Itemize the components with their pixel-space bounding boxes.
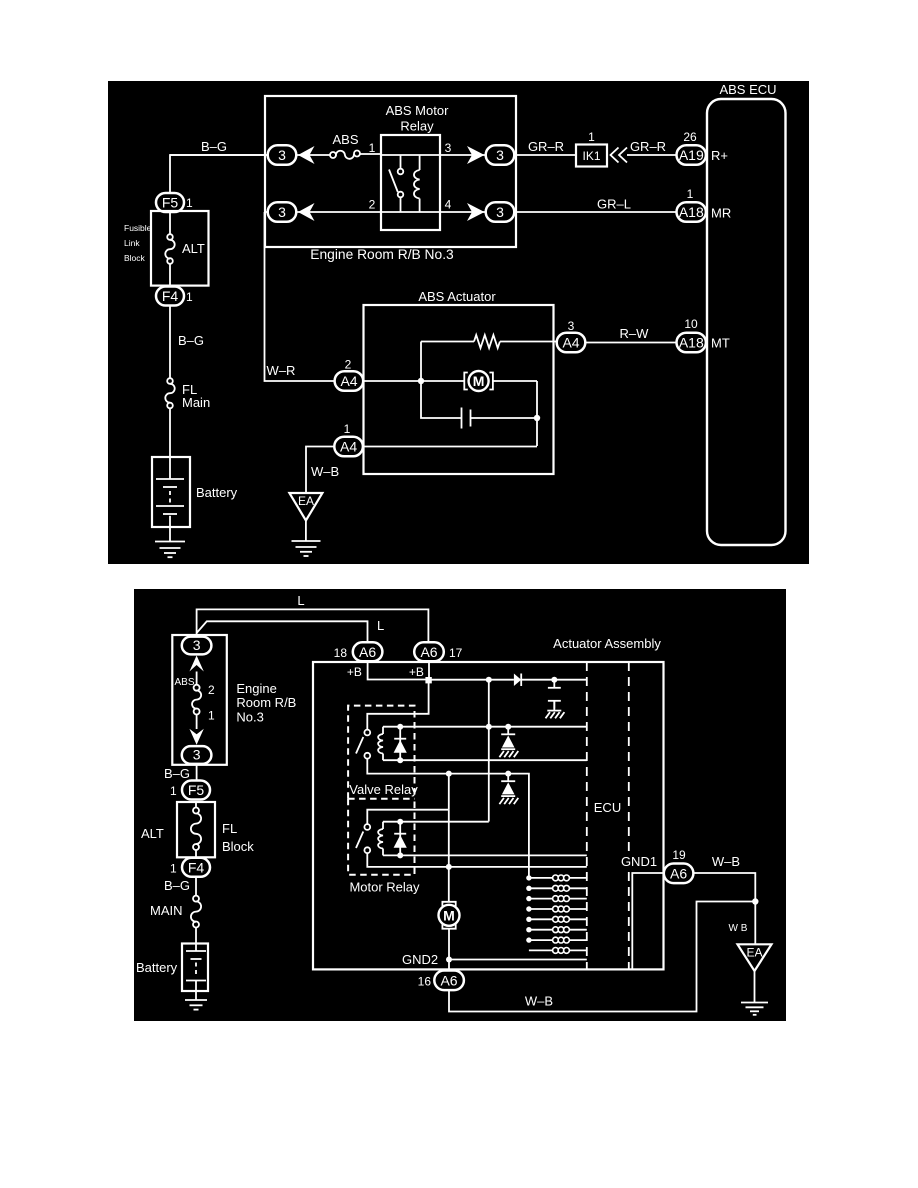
svg-text:18: 18	[334, 646, 348, 660]
svg-text:Relay: Relay	[400, 119, 434, 134]
solenoid coil row 7	[526, 937, 587, 943]
connector A19 pin 26	[677, 130, 706, 165]
wire right vertical	[536, 381, 538, 446]
hatched ground cap	[546, 701, 565, 719]
svg-text:A4: A4	[562, 335, 579, 351]
wire GR-R to IK1	[514, 139, 576, 155]
svg-text:ALT: ALT	[141, 826, 164, 841]
svg-text:17: 17	[449, 646, 463, 660]
svg-text:ABS ECU: ABS ECU	[719, 82, 776, 97]
svg-text:F4: F4	[188, 860, 205, 876]
valve relay diode D2	[394, 727, 407, 761]
valve relay switch	[356, 730, 449, 774]
motor relay coil	[378, 822, 400, 856]
svg-text:B–G: B–G	[164, 878, 190, 893]
svg-text:A6: A6	[440, 973, 457, 989]
pin 2 relay	[369, 198, 376, 212]
wire valve coil top rail	[400, 726, 587, 728]
svg-text:Battery: Battery	[196, 485, 238, 500]
solenoid coil row 4	[526, 906, 587, 912]
svg-text:EA: EA	[298, 494, 314, 508]
svg-text:B–G: B–G	[201, 139, 227, 154]
svg-text:ALT: ALT	[182, 241, 205, 256]
svg-text:GR–R: GR–R	[528, 139, 564, 154]
svg-text:Link: Link	[124, 238, 140, 248]
svg-text:3: 3	[496, 147, 504, 163]
connector F5 p2	[170, 781, 210, 800]
svg-text:A18: A18	[679, 335, 704, 351]
svg-text:2: 2	[369, 198, 376, 212]
svg-text:GND2: GND2	[402, 952, 438, 967]
node junction cap	[534, 415, 540, 421]
battery B2	[136, 927, 208, 991]
ground below battery	[155, 527, 185, 557]
node +B junction	[425, 677, 431, 683]
svg-text:1: 1	[369, 141, 376, 155]
svg-text:MAIN: MAIN	[150, 903, 183, 918]
connector 3 left row2	[268, 202, 297, 222]
svg-text:W–R: W–R	[267, 363, 296, 378]
svg-text:R+: R+	[711, 148, 728, 163]
svg-text:A4: A4	[340, 373, 357, 389]
connector A6 pin 17	[414, 642, 462, 661]
svg-text:ECU: ECU	[594, 800, 621, 815]
ground EA	[289, 493, 322, 556]
pin 3 relay	[445, 141, 452, 155]
ABS ECU box	[707, 82, 786, 545]
connector 3 right row1	[486, 145, 515, 165]
wire to battery	[169, 408, 171, 457]
svg-text:ABS Motor: ABS Motor	[386, 103, 450, 118]
svg-text:MT: MT	[711, 336, 730, 351]
svg-text:3: 3	[278, 147, 286, 163]
zener Z2	[499, 774, 518, 805]
connector A6 pin 19	[664, 848, 694, 883]
svg-text:A6: A6	[420, 644, 437, 660]
wire L inner	[197, 618, 385, 643]
solenoid coil row 3	[526, 896, 587, 902]
wire B-G MAIN	[164, 877, 196, 896]
label w b small	[729, 923, 748, 934]
wire GR-R to A19	[627, 139, 677, 155]
battery B1	[152, 457, 238, 527]
motor relay dashed box	[348, 799, 420, 895]
svg-text:1: 1	[208, 709, 215, 723]
wire B-G left chain	[170, 306, 204, 379]
svg-text:A19: A19	[679, 147, 704, 163]
valve relay dashed box	[348, 706, 418, 799]
wire W-B to EA	[306, 447, 339, 494]
svg-text:Actuator Assembly: Actuator Assembly	[553, 636, 661, 651]
connector A4 pin 2	[335, 358, 364, 391]
wire motor out row	[449, 866, 587, 868]
resistor R1	[421, 335, 557, 381]
node valve coil bottom	[397, 757, 403, 763]
wire row1 y155 left	[170, 154, 381, 155]
engine room R/B No.3 box	[265, 96, 516, 262]
svg-text:EA: EA	[746, 946, 762, 960]
fuse ABS p2	[174, 672, 215, 730]
connector F5 pin 1	[156, 193, 193, 212]
motor M2	[439, 902, 460, 971]
svg-text:Motor Relay: Motor Relay	[349, 880, 420, 895]
pin label R+	[711, 148, 728, 163]
double chevron left	[611, 148, 628, 163]
connector A6 pin 16	[418, 971, 464, 991]
svg-text:L: L	[377, 618, 384, 633]
svg-text:IK1: IK1	[582, 149, 600, 163]
node motor switch out	[446, 864, 452, 870]
wire to M motor	[448, 810, 450, 902]
node valve coil top	[397, 724, 403, 730]
connector A4 pin 3	[557, 319, 586, 352]
arrow left row2	[298, 203, 315, 221]
svg-text:Battery: Battery	[136, 960, 178, 975]
svg-text:F5: F5	[188, 782, 205, 798]
solenoid coil row 2	[526, 885, 587, 891]
wire W-R feed	[265, 212, 335, 381]
ground below battery p2	[185, 991, 207, 1010]
connector F4 p2	[170, 858, 210, 877]
relay coil	[414, 155, 420, 212]
svg-text:3: 3	[278, 204, 286, 220]
FL block box p2	[141, 802, 254, 857]
node zener2 tap	[505, 771, 511, 777]
motor relay switch	[356, 824, 449, 867]
solenoid coil row 5	[526, 916, 587, 922]
svg-text:26: 26	[683, 130, 697, 144]
wire +B to diode	[431, 679, 514, 681]
engine room R/B No.3 box p2	[172, 635, 296, 765]
svg-text:A18: A18	[679, 204, 704, 220]
svg-text:M: M	[443, 907, 455, 923]
svg-text:3: 3	[568, 319, 575, 333]
motor M1	[464, 371, 537, 391]
pin label MR	[711, 206, 731, 221]
svg-text:Fusible: Fusible	[124, 223, 152, 233]
svg-text:M: M	[473, 373, 485, 389]
fusible link block box	[124, 211, 209, 286]
svg-text:W–B: W–B	[712, 854, 740, 869]
svg-text:1: 1	[588, 130, 595, 144]
panel 1 background	[108, 81, 809, 564]
connector A6 pin 18	[334, 642, 383, 661]
connector F4 pin 1	[156, 287, 193, 306]
svg-text:R–W: R–W	[620, 326, 650, 341]
node EA junction	[752, 898, 758, 904]
pin 4 relay	[445, 198, 452, 212]
svg-text:Engine: Engine	[236, 681, 276, 696]
fuse FL Main	[165, 378, 210, 410]
fuse ALT	[165, 211, 174, 286]
fuse ALT p2	[191, 802, 201, 857]
svg-text:F5: F5	[162, 195, 179, 211]
wire motor row	[363, 380, 464, 382]
label +B right	[409, 665, 424, 679]
wire GND1	[617, 852, 664, 969]
svg-text:1: 1	[687, 187, 694, 201]
node GND2	[402, 952, 452, 967]
wire R-W row	[585, 326, 676, 343]
pin 1 relay	[369, 141, 376, 155]
svg-text:GR–L: GR–L	[597, 197, 631, 212]
node cap tap	[551, 677, 557, 683]
label +B left	[347, 665, 362, 679]
svg-text:Engine Room R/B No.3: Engine Room R/B No.3	[310, 247, 454, 262]
panel 2 background	[134, 589, 786, 1021]
wire B-G top	[170, 139, 268, 193]
node motor coil bottom	[397, 852, 403, 858]
node diode feed	[486, 677, 492, 683]
ABS actuator box	[364, 289, 554, 474]
wire B-G p2	[164, 764, 197, 781]
valve relay coil	[378, 727, 400, 761]
svg-text:No.3: No.3	[236, 710, 263, 725]
svg-text:ABS Actuator: ABS Actuator	[418, 289, 496, 304]
wire row1 right of relay	[440, 154, 486, 156]
fuse ABS	[330, 132, 360, 159]
arrow right row1	[467, 146, 485, 164]
svg-text:16: 16	[418, 975, 432, 989]
arrow left row1	[298, 146, 315, 164]
wire motor coil bottom rail	[400, 854, 587, 856]
svg-text:W B: W B	[729, 923, 748, 934]
capacitor C1	[421, 381, 537, 429]
svg-text:Valve Relay: Valve Relay	[349, 782, 418, 797]
pin label MT	[711, 336, 730, 351]
solenoid coil row 8	[529, 948, 587, 954]
wire L outer	[197, 593, 429, 643]
svg-text:ABS: ABS	[174, 677, 194, 688]
relay U1 ABS Motor Relay box	[381, 103, 449, 230]
svg-text:F4: F4	[162, 288, 179, 304]
svg-text:MR: MR	[711, 206, 731, 221]
wire valve relay feed	[367, 683, 428, 731]
svg-text:GND1: GND1	[621, 854, 657, 869]
zener Z1	[499, 724, 518, 758]
svg-text:1: 1	[170, 862, 177, 876]
svg-text:1: 1	[170, 784, 177, 798]
wire row1 inside relay	[381, 154, 440, 156]
connector 3 right row2	[486, 202, 515, 222]
connector 3 bottom p2	[182, 746, 212, 764]
svg-text:4: 4	[445, 198, 452, 212]
node junction motor row	[418, 378, 424, 384]
wire valve out row	[449, 774, 529, 878]
motor relay diode D3	[394, 822, 407, 856]
svg-text:19: 19	[672, 848, 686, 862]
svg-text:3: 3	[445, 141, 452, 155]
svg-text:W–B: W–B	[311, 464, 339, 479]
svg-text:1: 1	[186, 196, 193, 210]
wire W-B from A6 19	[693, 854, 755, 944]
wire +B bus	[368, 661, 429, 679]
wire GND2 row	[449, 959, 587, 961]
ECU dashed boundary right	[594, 662, 629, 969]
connector A18 pin 1	[677, 187, 706, 222]
diode D1	[514, 674, 587, 687]
svg-text:B–G: B–G	[164, 766, 190, 781]
svg-text:+B: +B	[347, 665, 362, 679]
wire valve coil bottom rail	[400, 759, 587, 761]
svg-text:3: 3	[496, 204, 504, 220]
junction block IK1	[576, 130, 607, 167]
wire row2 y212	[265, 211, 487, 213]
svg-text:ABS: ABS	[332, 132, 358, 147]
wire bottom row actuator	[363, 446, 537, 448]
svg-text:L: L	[297, 593, 304, 608]
connector A4 pin 1	[334, 422, 363, 456]
wire motor coil top rail	[400, 821, 489, 823]
svg-text:Block: Block	[124, 253, 146, 263]
svg-text:Main: Main	[182, 395, 210, 410]
arrow up p2	[189, 656, 203, 672]
wire motor relay feed	[367, 774, 449, 825]
svg-text:B–G: B–G	[178, 333, 204, 348]
capacitor C2	[548, 680, 561, 709]
svg-text:FL: FL	[222, 821, 237, 836]
connector 3 left row1	[268, 145, 297, 165]
wire W-B bottom loop	[449, 902, 755, 1012]
ground EA p2	[738, 944, 772, 1015]
svg-text:GR–R: GR–R	[630, 139, 666, 154]
connector 3 top p2	[182, 637, 212, 655]
solenoid coil row 1	[526, 875, 587, 881]
svg-text:2: 2	[345, 358, 352, 372]
svg-text:3: 3	[193, 637, 201, 653]
svg-text:Block: Block	[222, 839, 254, 854]
ECU dashed boundary left	[586, 662, 588, 969]
fuse MAIN	[150, 896, 201, 928]
svg-text:A4: A4	[340, 439, 357, 455]
node +B vertical top	[486, 680, 492, 822]
svg-text:A6: A6	[359, 644, 376, 660]
node motor coil top	[397, 819, 403, 825]
svg-text:10: 10	[684, 317, 698, 331]
arrow down p2	[189, 729, 203, 745]
node valve switch out	[446, 771, 452, 777]
relay switch contacts	[389, 155, 403, 212]
svg-text:3: 3	[193, 747, 201, 763]
solenoid coil row 6	[526, 927, 587, 933]
svg-text:Room R/B: Room R/B	[236, 695, 296, 710]
svg-text:1: 1	[186, 290, 193, 304]
svg-text:W–B: W–B	[525, 994, 553, 1009]
arrow right row2	[467, 203, 485, 221]
wire GR-L to A18	[514, 197, 676, 213]
svg-text:2: 2	[208, 683, 215, 697]
svg-text:+B: +B	[409, 665, 424, 679]
svg-text:1: 1	[344, 422, 351, 436]
actuator assembly box	[313, 636, 664, 969]
svg-text:A6: A6	[670, 866, 687, 882]
connector A18 pin 10	[677, 317, 706, 352]
